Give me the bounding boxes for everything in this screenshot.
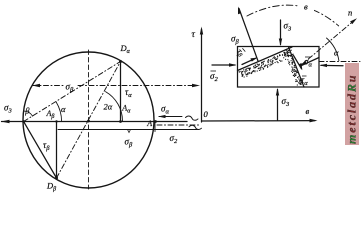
alpha angle arc	[56, 102, 62, 122]
svg-text:α: α	[334, 48, 339, 58]
sigma_alpha short line y=116.5	[159, 116, 182, 118]
circle vertical center line	[88, 50, 90, 189]
watermark strip	[345, 63, 359, 145]
point A_beta	[55, 120, 57, 122]
horizontal dash-dot from right edge	[319, 61, 360, 63]
sigma_2 left arrow	[212, 64, 235, 66]
svg-text:σα: σα	[161, 104, 169, 116]
point A_alpha	[119, 120, 122, 123]
svg-text:Aβ: Aβ	[46, 109, 55, 120]
label tau_beta rotated	[234, 46, 247, 58]
gap for arc label	[299, 0, 314, 12]
svg-text:τβ: τβ	[234, 46, 247, 58]
alpha angle arc right	[327, 38, 339, 61]
svg-text:σβ: σβ	[125, 137, 133, 149]
point D_beta	[55, 177, 58, 180]
right axis arrowhead	[310, 119, 318, 123]
sigma axis	[2, 121, 188, 123]
beta big arc	[247, 5, 339, 26]
point A	[154, 120, 157, 123]
svg-text:σ2: σ2	[170, 133, 178, 145]
tau_alpha shear arrow	[294, 56, 302, 69]
tau axis arrowhead	[200, 27, 203, 35]
tau_beta vertical	[56, 122, 58, 179]
svg-text:σ3: σ3	[282, 96, 290, 108]
dimension line y=129.5	[58, 129, 199, 131]
Mohr circle	[23, 52, 154, 188]
svg-text:σ2: σ2	[210, 71, 218, 83]
stress element rectangle	[238, 47, 320, 88]
axis break squiggle upper	[186, 116, 199, 120]
2alpha angle arc	[106, 92, 123, 121]
svg-text:τβ: τβ	[43, 140, 50, 152]
beta angle arc	[24, 111, 32, 116]
sigma_2 right arrow	[321, 64, 343, 66]
svg-text:Dβ: Dβ	[46, 181, 56, 193]
svg-text:β: β	[24, 106, 30, 116]
point D_alpha	[119, 60, 122, 63]
svg-text:n: n	[348, 8, 352, 18]
diameter D_beta to D_alpha	[57, 62, 121, 179]
sigma dim dash-dot at y=85.5	[33, 85, 64, 87]
svg-text:A: A	[146, 119, 152, 128]
svg-text:σα: σα	[304, 57, 312, 69]
sigma axis left arrowhead	[1, 120, 10, 123]
point C center	[87, 120, 90, 123]
chord B to D_alpha	[24, 62, 121, 122]
sigma axis right part	[202, 120, 315, 122]
watermark text	[345, 74, 359, 144]
svg-text:α: α	[61, 104, 66, 114]
alpha plane	[289, 47, 305, 87]
chord B to D_beta	[24, 122, 57, 179]
n axis dash-dot	[300, 20, 355, 66]
svg-text:в: в	[306, 106, 310, 116]
svg-text:Dα: Dα	[120, 43, 131, 55]
beta plane	[238, 47, 293, 71]
svg-text:σβ: σβ	[231, 34, 239, 46]
svg-text:0: 0	[204, 109, 209, 119]
stipple hatching	[239, 50, 302, 86]
svg-text:2α: 2α	[104, 102, 113, 112]
sigma_beta arrow	[239, 9, 258, 62]
svg-text:metcladRu: metcladRu	[345, 74, 359, 144]
tick below A	[154, 122, 156, 132]
svg-text:τ: τ	[192, 30, 196, 40]
sigma_alpha arrow	[302, 58, 319, 66]
svg-text:Aα: Aα	[121, 104, 131, 115]
svg-text:τα: τα	[125, 87, 132, 99]
tau axis	[201, 29, 203, 122]
point B	[22, 120, 25, 123]
tau_alpha vertical	[120, 62, 122, 122]
svg-text:σβ: σβ	[66, 82, 74, 94]
dash-dot y=125	[157, 124, 200, 126]
svg-text:τα: τα	[301, 75, 308, 87]
axis break squiggle lower	[189, 125, 202, 129]
tau_beta shear arrow	[242, 58, 256, 64]
sigma_3 top arrow	[280, 20, 282, 45]
svg-text:σ3: σ3	[4, 103, 12, 115]
svg-text:σ3: σ3	[284, 21, 292, 33]
svg-text:в: в	[304, 2, 308, 12]
sigma_3 bottom arrow	[277, 90, 279, 121]
